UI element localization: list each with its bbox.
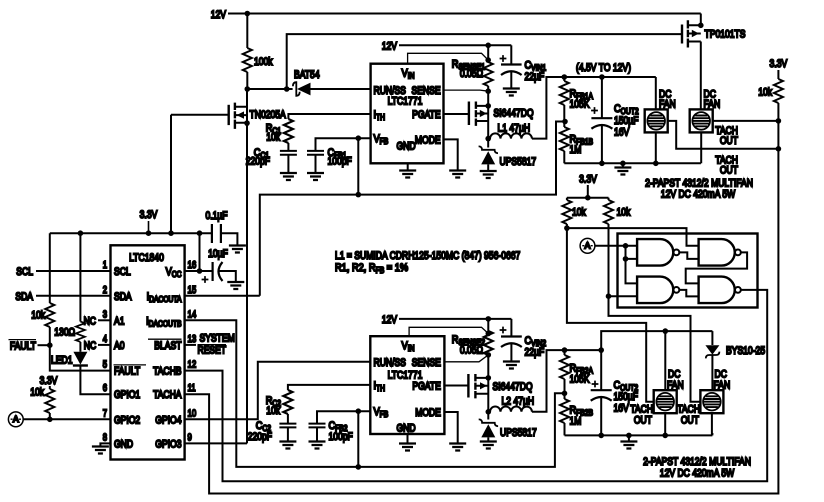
svg-text:15: 15 — [188, 285, 197, 296]
svg-text:MODE: MODE — [415, 134, 441, 146]
svg-text:LTC1840: LTC1840 — [129, 252, 164, 264]
diode UPS5817 bottom — [479, 419, 498, 426]
svg-text:TACHB: TACHB — [153, 366, 181, 378]
svg-text:0.1µF: 0.1µF — [205, 210, 227, 222]
svg-text:3.3V: 3.3V — [770, 58, 788, 70]
wire tach net down right side to TACHA — [185, 121, 779, 494]
wire pin8 GND — [100, 443, 110, 446]
node junction dot 12V/100k — [245, 11, 251, 17]
wire MODE bottom to ground — [444, 412, 457, 444]
svg-text:220pF: 220pF — [248, 431, 273, 443]
svg-text:7: 7 — [103, 408, 108, 419]
ground CFB2 — [309, 442, 326, 449]
svg-text:0.05Ω: 0.05Ω — [460, 345, 483, 357]
transistor TP0101TS — [681, 25, 683, 44]
svg-text:1M: 1M — [570, 144, 582, 156]
wire 12V top rail — [228, 13, 701, 15]
svg-text:GPIO4: GPIO4 — [155, 414, 181, 426]
svg-text:16: 16 — [188, 260, 197, 271]
wire GPIO3 to TN0205A source — [185, 442, 247, 444]
svg-text:100pF: 100pF — [329, 431, 354, 443]
svg-text:105K: 105K — [570, 99, 591, 111]
resistor RFB1B 1M — [563, 122, 565, 128]
wire switch node bottom vertical — [487, 355, 489, 420]
svg-text:GPIO2: GPIO2 — [114, 414, 140, 426]
svg-text:SDA: SDA — [114, 291, 132, 303]
capacitor COUT2 top 150uF — [601, 77, 603, 118]
wire 3.3V rail down to FAULT pullup — [49, 233, 51, 303]
wire 3.3V rail — [50, 232, 212, 234]
svg-text:14: 14 — [188, 309, 197, 320]
svg-text:5: 5 — [103, 360, 108, 371]
ground CC2 — [279, 442, 296, 449]
wire output bottom rail to ground — [564, 162, 701, 164]
svg-text:100k: 100k — [254, 56, 273, 68]
ground UPS5817 bottom — [480, 442, 497, 449]
svg-text:NC: NC — [84, 340, 96, 352]
svg-text:130Ω: 130Ω — [54, 327, 75, 339]
capacitor CC1 220pF — [280, 151, 297, 155]
ground LTC1771 bottom GND pin — [407, 434, 409, 444]
svg-text:4: 4 — [103, 334, 108, 345]
svg-text:105K: 105K — [570, 374, 591, 386]
wire VCC pullup from rail — [199, 233, 201, 271]
wire VFB down to feedback rail — [357, 138, 359, 194]
svg-text:RESET: RESET — [198, 345, 227, 357]
svg-text:12: 12 — [188, 360, 197, 371]
wire LED1 to GPIO1 — [80, 366, 110, 395]
svg-text:VFB: VFB — [374, 406, 389, 419]
wire feedback rail IDACOUTA/VFB/RFB1 — [185, 122, 565, 296]
svg-text:13: 13 — [188, 334, 197, 345]
svg-text:LED1: LED1 — [51, 355, 73, 367]
capacitor CFB2 100pF — [309, 424, 326, 428]
svg-text:UPS5817: UPS5817 — [500, 427, 537, 439]
wire bottom fan ground rail — [565, 434, 713, 436]
wire fan2 tach out — [713, 120, 779, 122]
svg-text:SENSE: SENSE — [412, 357, 441, 369]
svg-text:A1: A1 — [114, 315, 125, 327]
svg-text:10k: 10k — [31, 310, 45, 322]
svg-text:PGATE: PGATE — [412, 109, 441, 121]
svg-text:150µF: 150µF — [614, 115, 639, 127]
svg-text:12V: 12V — [382, 314, 398, 326]
svg-text:TN0205A: TN0205A — [250, 109, 287, 121]
ground 10uF — [227, 282, 244, 289]
wire FAULT to pin5 — [50, 345, 111, 370]
node junction dot BAT54 wire to TP0101TS gate branch — [284, 86, 290, 92]
resistor RC2 10k — [283, 390, 292, 414]
resistor RFB1A 105K — [563, 77, 565, 81]
svg-text:UPS5817: UPS5817 — [500, 156, 537, 168]
svg-text:SYSTEM: SYSTEM — [200, 333, 235, 345]
svg-text:BAT54: BAT54 — [294, 69, 320, 81]
wire gate2 out to gate4 input A — [686, 252, 747, 283]
node A circle right — [580, 238, 595, 253]
svg-text:8: 8 — [103, 432, 108, 443]
wire A to NAND gate1 inputs — [595, 246, 637, 284]
resistor 10k NAND pullup 1 — [566, 198, 568, 200]
ground bottom fan rail — [628, 435, 630, 441]
node NAND package box — [618, 234, 758, 308]
resistor 10k GPIO2 pullup — [49, 386, 51, 389]
wire SCL — [36, 270, 111, 272]
ground MODE top — [449, 171, 466, 178]
resistor 130ohm — [76, 322, 85, 342]
svg-text:SCL: SCL — [16, 266, 33, 278]
ground LTC1771 top GND pin — [407, 163, 409, 170]
op-amp U2 LTC1771 top regulator box — [371, 64, 444, 164]
svg-text:TACHA: TACHA — [153, 389, 182, 401]
gate NAND4 — [699, 277, 735, 304]
wire SDA — [36, 295, 111, 297]
resistor RC1 10k — [284, 119, 293, 143]
svg-text:1M: 1M — [570, 416, 582, 428]
wire bottom output to fan rail — [601, 331, 712, 350]
ground MODE bottom — [449, 444, 466, 451]
svg-text:NC: NC — [84, 315, 96, 327]
svg-text:LTC1771: LTC1771 — [388, 96, 423, 108]
wire TN0205A source down to GPIO3 — [246, 89, 248, 443]
node bottom output rail junctions — [562, 347, 568, 353]
resistor RSENSE1 0.05ohm — [487, 45, 489, 62]
svg-text:0.05Ω: 0.05Ω — [460, 68, 483, 80]
svg-text:SI6447DQ: SI6447DQ — [494, 108, 534, 120]
svg-text:3.3V: 3.3V — [579, 174, 597, 186]
ground CVIN1 — [503, 89, 520, 96]
gate NAND3 — [637, 277, 673, 304]
LED LED1 — [73, 352, 87, 365]
wire drain node to BAT54 anode — [247, 88, 292, 90]
wire VFB line — [316, 138, 371, 151]
svg-text:22µF: 22µF — [525, 347, 545, 359]
node A circle left — [8, 412, 23, 427]
svg-text:1: 1 — [103, 260, 108, 271]
svg-text:OUT: OUT — [720, 135, 738, 147]
svg-text:IDACOUTB: IDACOUTB — [146, 315, 181, 328]
svg-text:L1 = SUMIDA CDRH125-150MC (84: L1 = SUMIDA CDRH125-150MC (847) 956-0667 — [335, 250, 520, 262]
wire GPIO4 to RUN/SS — [185, 362, 371, 420]
svg-text:RUN/SS: RUN/SS — [374, 357, 406, 369]
diode UPS5817 top — [479, 146, 498, 153]
wire fan2 bottom to rail — [700, 132, 702, 163]
svg-text:FAULT: FAULT — [114, 366, 140, 378]
op-amp U3 LTC1771 bottom regulator box — [370, 336, 444, 434]
svg-text:3.3V: 3.3V — [140, 209, 158, 221]
wire tach2 pullup to gate3 input B and fan4 tach — [609, 296, 701, 402]
svg-text:GPIO1: GPIO1 — [114, 389, 140, 401]
wire SENSE bottom thin connect — [444, 355, 488, 362]
svg-text:BYS10-25: BYS10-25 — [726, 345, 765, 357]
transistor TN0205A — [171, 114, 229, 116]
svg-text:SCL: SCL — [114, 266, 131, 278]
node SYSTEM RESET label — [185, 344, 196, 346]
svg-text:A0: A0 — [114, 340, 125, 352]
capacitor CC2 220pF — [279, 424, 296, 428]
svg-text:3.3V: 3.3V — [40, 375, 58, 387]
svg-text:A: A — [585, 241, 591, 251]
wire L2 output up to output rail — [532, 350, 601, 412]
resistor RSENSE2 0.05ohm — [487, 319, 489, 331]
svg-text:VIN: VIN — [402, 340, 415, 353]
wire VIN bottom thin connect — [409, 327, 488, 336]
svg-text:FAULT: FAULT — [10, 340, 36, 352]
svg-text:(4.5V TO 12V): (4.5V TO 12V) — [576, 62, 631, 74]
wire 12V to RSENSE1 and CVIN1 — [399, 44, 511, 46]
svg-text:OUT: OUT — [634, 415, 652, 427]
wire fan1 feed — [655, 77, 657, 163]
ground 0.1uF — [229, 246, 246, 253]
svg-text:12V DC 420mA 5W: 12V DC 420mA 5W — [660, 468, 735, 480]
svg-text:OUT: OUT — [720, 165, 738, 177]
wire TP0101TS gate line — [287, 34, 682, 89]
svg-text:6: 6 — [103, 383, 108, 394]
svg-text:100pF: 100pF — [328, 156, 353, 168]
wire TP0101TS drain to 12V rail and source to fan2 — [700, 14, 702, 110]
wire 3.3V rail down to 130ohm — [79, 233, 81, 321]
svg-text:GND: GND — [396, 141, 415, 153]
svg-text:2: 2 — [103, 285, 108, 296]
wire FAULT stub — [38, 344, 50, 346]
capacitor CVIN1 22uF — [510, 45, 512, 64]
node VFB junction dot — [356, 135, 362, 141]
wire VFB bottom line — [317, 411, 370, 423]
resistor 10k tach pullup right — [777, 70, 779, 79]
svg-text:BLAST: BLAST — [154, 340, 181, 352]
wire tach1 pullup down to fan3 tach — [567, 228, 654, 402]
svg-text:2-PAPST 4312/2 MULTIFAN: 2-PAPST 4312/2 MULTIFAN — [643, 456, 751, 468]
svg-text:10k: 10k — [266, 132, 280, 144]
wire SENSE thin connect — [444, 90, 489, 91]
wire gate3 out to gate4 input B — [679, 290, 698, 297]
resistor 10k NAND pullup 2 — [608, 198, 610, 200]
svg-text:TP0101TS: TP0101TS — [705, 29, 746, 41]
ground LTC1840 — [92, 447, 109, 454]
transistor SI6447DQ bottom — [444, 385, 468, 387]
wire IDACOUTB feedback rail — [185, 320, 565, 467]
ground CVIN2 — [503, 362, 520, 369]
svg-text:3: 3 — [103, 309, 108, 320]
svg-text:VFB: VFB — [374, 133, 389, 146]
resistor 10k FAULT pullup — [45, 303, 54, 327]
svg-text:VCC: VCC — [166, 266, 182, 279]
wire gate1 out to gate2 input B — [679, 252, 698, 259]
svg-text:OUT: OUT — [681, 415, 699, 427]
wire A to GPIO2 — [23, 418, 110, 420]
svg-text:12V DC 420mA 5W: 12V DC 420mA 5W — [661, 189, 736, 201]
svg-text:16V: 16V — [614, 127, 630, 139]
capacitor COUT2 bottom 150uF — [592, 381, 599, 388]
wire 12V bottom to RSENSE2 and CVIN2 — [399, 318, 511, 320]
svg-text:GPIO3: GPIO3 — [155, 438, 181, 450]
capacitor CVIN2 22uF — [510, 319, 512, 337]
diode BAT54 — [293, 82, 300, 96]
svg-text:PGATE: PGATE — [412, 381, 441, 393]
svg-text:11: 11 — [188, 383, 196, 394]
ground CC1 — [280, 173, 297, 180]
svg-text:IDACOUTA: IDACOUTA — [147, 291, 182, 304]
wire MODE to ground — [444, 139, 458, 170]
gate NAND2 — [699, 239, 735, 266]
svg-text:SDA: SDA — [15, 291, 33, 303]
ground UPS5817 top — [480, 171, 497, 178]
wire fan1 tach out — [668, 121, 779, 149]
wire fan3 feed — [664, 331, 666, 435]
ground CFB1 — [307, 173, 324, 180]
svg-text:10k: 10k — [266, 405, 280, 417]
svg-text:9: 9 — [188, 432, 193, 443]
resistor RFB2A 105K — [564, 350, 566, 355]
svg-text:A: A — [13, 414, 19, 424]
svg-text:SI6447DQ: SI6447DQ — [493, 381, 533, 393]
svg-text:GND: GND — [396, 423, 415, 435]
svg-text:GND: GND — [114, 438, 133, 450]
svg-text:22µF: 22µF — [525, 71, 545, 83]
node VFB bottom junction dot — [356, 408, 362, 414]
wire ITH to RC1 — [288, 114, 469, 119]
wire L1 output up to 4.5V rail — [532, 77, 656, 139]
diode BYS10-25 — [711, 331, 713, 345]
svg-text:R1, R2, RFB = 1%: R1, R2, RFB = 1% — [335, 262, 408, 275]
svg-text:12V: 12V — [382, 40, 398, 52]
svg-text:MODE: MODE — [415, 407, 441, 419]
svg-text:220pF: 220pF — [246, 156, 271, 168]
svg-text:10k: 10k — [572, 207, 586, 219]
svg-text:10k: 10k — [30, 387, 44, 399]
svg-text:10µF: 10µF — [208, 248, 228, 260]
resistor RFB2B 1M — [564, 393, 566, 399]
gate NAND1 — [637, 239, 673, 266]
svg-text:10k: 10k — [758, 87, 772, 99]
svg-text:10k: 10k — [617, 207, 631, 219]
svg-text:16V: 16V — [614, 403, 630, 415]
svg-text:ITH: ITH — [374, 380, 386, 393]
wire VIN thin connect — [408, 53, 489, 63]
ground fan rail top — [622, 163, 624, 167]
wire ITH bottom to RC2 — [288, 385, 370, 390]
svg-text:10: 10 — [188, 408, 197, 419]
svg-text:12V: 12V — [211, 9, 227, 21]
svg-text:150µF: 150µF — [614, 391, 639, 403]
svg-text:VIN: VIN — [402, 68, 415, 81]
wire tach1 pullup to gate2 input A — [567, 228, 699, 246]
resistor 100k — [246, 14, 248, 49]
wire fan4 bottom to rail — [711, 413, 714, 435]
op-amp U1 LTC1840 controller box — [111, 245, 185, 459]
capacitor CFB1 100pF — [307, 151, 324, 155]
wire gate4 out down to TACHB — [185, 290, 768, 481]
svg-text:ITH: ITH — [374, 109, 386, 122]
transistor SI6447DQ top — [468, 102, 470, 126]
wire switch node vertical — [487, 91, 489, 147]
node junction dot 100k/TN0205A drain/BAT54 — [245, 86, 251, 92]
